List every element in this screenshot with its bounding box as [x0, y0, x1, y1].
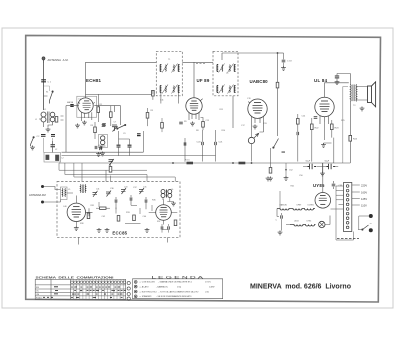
resistor R3	[110, 112, 113, 118]
tube UF89 envelope	[186, 98, 203, 114]
wire 270 column	[270, 148, 272, 168]
svg-text:C44: C44	[143, 216, 148, 218]
svg-text:ECC85: ECC85	[112, 230, 127, 235]
tube ECH81 shield box	[77, 96, 97, 117]
ground detector stub	[284, 176, 289, 180]
switch S1 (gamma)	[50, 91, 54, 104]
svg-text:C50: C50	[299, 175, 304, 177]
svg-text:T3: T3	[353, 105, 356, 107]
FM resistor 1	[87, 213, 90, 219]
switch S3 band	[117, 124, 126, 129]
extra table marks	[71, 287, 126, 298]
speck mark	[282, 152, 286, 153]
wire UF89 anode up	[182, 62, 213, 98]
speaker	[368, 82, 376, 107]
capacitor C2 (padder)	[41, 135, 46, 137]
ground heater	[266, 177, 271, 181]
svg-text:C: C	[276, 220, 278, 222]
wire UL84 anode up to transformer	[325, 83, 349, 98]
cap C osc pad	[100, 147, 102, 150]
wire mid column	[144, 108, 148, 152]
ECH81 pin wires	[82, 112, 92, 121]
svg-text:L2: L2	[55, 149, 58, 151]
svg-text:C40: C40	[63, 206, 68, 208]
wire heater interconnect	[277, 209, 330, 225]
T1 lower LC pair	[160, 85, 179, 94]
symbol column circles	[127, 281, 130, 300]
antenna FM terminals	[41, 185, 44, 204]
svg-text:L1: L1	[35, 119, 37, 121]
bus y177.5	[74, 176, 175, 178]
cap C UF89	[179, 122, 183, 124]
resistor R on speaker line	[349, 136, 352, 142]
T2 primary LC	[217, 64, 236, 73]
svg-text:UF 89: UF 89	[197, 78, 210, 83]
legend row texts	[140, 281, 199, 298]
svg-text:50µF: 50µF	[306, 161, 311, 163]
svg-text:R41: R41	[291, 186, 296, 188]
switch S4 on pot	[273, 139, 279, 149]
wire R14	[110, 163, 112, 182]
FM ratio caps	[161, 226, 163, 229]
wire R3 column	[110, 106, 112, 126]
svg-text:C37: C37	[133, 187, 138, 189]
wire R12	[311, 118, 313, 162]
svg-text:C36: C36	[110, 188, 115, 190]
commutation row labels	[36, 287, 42, 300]
svg-text:1 A/W: 1 A/W	[209, 285, 214, 288]
main bus y161.5	[59, 162, 350, 164]
left bus verticals	[59, 163, 175, 182]
cap C32 beside UY85	[332, 184, 336, 186]
svg-text:= ELETTROLITICI - TUTTI GL: = ELETTROLITICI - TUTTI GLI AVVOLGIMENTI…	[140, 290, 199, 293]
wire heater feed	[279, 191, 281, 209]
svg-text:UABC80: UABC80	[250, 79, 269, 84]
IF transformer T2 box	[213, 51, 238, 96]
svg-text:= CON NUCLEO - GAMMA OND: = CON NUCLEO - GAMMA ONDE ULTRACORTE 87,…	[140, 281, 193, 284]
wire C21	[215, 130, 217, 161]
wire switch branch	[44, 86, 50, 91]
commutation header circles	[71, 281, 126, 284]
FM resistor 2	[117, 216, 120, 222]
coupling cap C19 column	[184, 138, 186, 162]
wire 277 drop to resistor	[277, 53, 279, 82]
svg-text:1 kV%: 1 kV%	[205, 282, 211, 284]
FM tiny labels	[80, 187, 160, 226]
ground speaker	[360, 107, 365, 111]
commutation table columns	[74, 279, 124, 299]
svg-text:C20: C20	[197, 142, 202, 144]
wire T2 out to bus y53	[222, 53, 278, 128]
resistor R16	[161, 123, 164, 129]
wire tone cap	[336, 74, 338, 81]
bus y155.5	[62, 155, 216, 157]
wire R11 column	[297, 114, 299, 161]
cap blob	[137, 134, 141, 136]
svg-text:FM: FM	[36, 287, 39, 289]
ground R10	[268, 177, 273, 181]
AVC bus y152	[62, 151, 144, 153]
wire ratio caps	[162, 224, 169, 233]
FM cap row	[115, 199, 117, 202]
mains terminal strip	[344, 183, 352, 232]
mains plug dot 1	[369, 214, 373, 218]
cap C34 line filter	[281, 215, 283, 218]
svg-text:C52: C52	[289, 170, 294, 172]
wire tube right side	[94, 106, 120, 125]
FM coil 2	[161, 190, 165, 198]
dashed segment bottom	[337, 238, 359, 240]
junction dot bus 3	[251, 162, 253, 164]
trimmer cap on coil	[51, 135, 55, 137]
pilot lamp	[319, 221, 325, 227]
resistor R6	[276, 82, 279, 88]
FM resistor 3	[133, 215, 136, 221]
svg-text:C21: C21	[219, 142, 224, 144]
svg-text:C9: C9	[123, 133, 126, 135]
UABC80 pin wires	[252, 117, 264, 132]
antenna AM symbol	[42, 57, 45, 63]
svg-text:= STAMPATI - SE NON D: = STAMPATI - SE NON DIVERSAMENTE INDICAT…	[140, 295, 192, 298]
svg-text:C24: C24	[302, 116, 307, 118]
legend box	[133, 279, 223, 299]
svg-text:160V: 160V	[361, 191, 367, 195]
svg-text:S1: S1	[46, 92, 48, 94]
heater chain row2	[290, 225, 316, 227]
resistor R9	[146, 113, 149, 119]
series resistor on bus	[187, 162, 194, 165]
svg-text:C42: C42	[102, 216, 107, 218]
FM input coil L5b	[80, 185, 86, 194]
oscillator section resistor R8	[94, 127, 97, 133]
terminal circles	[346, 185, 349, 229]
T1 secondary LC	[172, 64, 180, 73]
svg-text:UL84: UL84	[294, 221, 299, 223]
UF89 pin wires	[189, 113, 199, 120]
wire mains bottom	[336, 216, 369, 240]
cap C13	[117, 145, 121, 147]
ground C34	[278, 231, 283, 235]
ground far-left	[30, 146, 35, 150]
UL84 grid resistor R11	[297, 119, 300, 125]
svg-text:R24: R24	[353, 139, 358, 141]
electrolytic cap C30	[308, 164, 317, 169]
svg-text:SCHEMA DELLE COMMUTAZIONI: SCHEMA DELLE COMMUTAZIONI	[36, 276, 114, 280]
svg-text:110V: 110V	[361, 204, 367, 208]
resistor R5 UF89 cathode	[202, 122, 205, 128]
bus y170	[59, 169, 147, 171]
FM coil 3	[166, 190, 172, 198]
svg-text:C43: C43	[124, 187, 127, 189]
tuning gang cap CV1	[112, 125, 118, 132]
FM grounds	[74, 226, 79, 230]
wire coil to ground	[44, 122, 53, 127]
svg-text:UCH81: UCH81	[308, 205, 314, 207]
wire ECH81 anode to top bus	[85, 62, 87, 97]
resistor R2 screen	[97, 107, 100, 113]
resistor R14 to FM box	[109, 167, 112, 173]
FM trimmer 1	[106, 191, 111, 197]
FM wires inside	[67, 193, 177, 226]
wire UF89 screen	[201, 118, 204, 131]
FM trimmer 2	[121, 188, 126, 194]
bus y174.5	[65, 174, 147, 176]
series resistor on bus 2	[239, 162, 246, 165]
cap C11b left	[51, 145, 56, 147]
svg-text:UY85: UY85	[313, 183, 325, 188]
svg-text:L5: L5	[68, 189, 71, 191]
wire secondary return	[343, 87, 348, 164]
wire C34	[281, 213, 283, 231]
wire T3 secondary to speaker	[357, 87, 368, 101]
svg-text:C 18: C 18	[287, 61, 292, 63]
svg-text:R25: R25	[341, 120, 346, 122]
svg-text:R33: R33	[126, 212, 131, 214]
svg-text:L6: L6	[171, 189, 174, 191]
svg-text:C19: C19	[247, 98, 252, 100]
FM trimmer 0	[93, 191, 98, 197]
resistor R4 left of T1	[152, 90, 155, 96]
mains plug dot 2	[369, 228, 373, 232]
wire T1 bottom drops	[153, 90, 178, 103]
ground cap	[281, 66, 286, 70]
svg-text:ANTENNA FM: ANTENNA FM	[29, 193, 46, 197]
ground pins area	[75, 124, 80, 128]
svg-text:R38: R38	[80, 223, 83, 225]
svg-text:±/10: ±/10	[205, 291, 210, 293]
wire cathode	[324, 120, 334, 163]
svg-text:R23: R23	[335, 128, 340, 130]
svg-text:C2: C2	[37, 136, 41, 138]
T1 primary LC	[160, 64, 168, 73]
tube UABC80 envelope	[248, 99, 267, 118]
wire grid line into tube	[66, 105, 79, 107]
svg-text:R9: R9	[184, 121, 187, 123]
svg-text:C45: C45	[143, 187, 146, 189]
capacitor grid blob left of ECH81	[70, 105, 73, 107]
junction dot bus	[172, 162, 174, 164]
wire T3 primary bottom down (B+)	[349, 102, 351, 136]
junction dot	[277, 52, 279, 54]
ground osc	[100, 152, 105, 156]
FM resistor mid	[100, 207, 107, 209]
ground UL84 cathode	[321, 143, 326, 147]
tube UY85 envelope	[315, 193, 331, 209]
ground ECH81 cathode	[82, 121, 87, 125]
wire antenna down-lead	[43, 63, 45, 110]
resistor R1 beside coil	[55, 117, 58, 123]
AM column stubs	[39, 96, 64, 120]
mains switch	[362, 225, 369, 230]
wire cap drop	[283, 53, 285, 66]
ground cap pair	[96, 152, 101, 156]
UL84 pin wires	[320, 116, 329, 124]
cap C19	[184, 142, 186, 145]
tube ECH81 envelope	[78, 98, 95, 113]
tube UL84 envelope	[315, 97, 334, 116]
resistor R12	[311, 124, 314, 130]
ground tone cap	[335, 80, 340, 84]
wire mid resistor	[96, 207, 110, 209]
svg-text:R11: R11	[220, 109, 224, 111]
svg-text:C 1: C 1	[48, 81, 52, 83]
svg-text:220V: 220V	[361, 184, 367, 188]
coil L1 AM antenna transformer	[41, 112, 55, 124]
voltage taps right	[352, 185, 360, 205]
dash-dot AGC stub	[196, 63, 205, 65]
svg-text:L2: L2	[62, 158, 64, 160]
wire UY85 top	[323, 163, 334, 193]
svg-text:T2: T2	[226, 73, 229, 75]
legend bullets	[134, 281, 137, 298]
ECC85 triode 2	[156, 205, 172, 221]
wire strip feed vertical	[331, 186, 337, 240]
FM balun coil	[61, 187, 68, 200]
cap C osc grid	[102, 124, 106, 126]
wire C11b	[52, 141, 54, 152]
wire top bus to IF1	[86, 61, 157, 63]
svg-text:ECH81: ECH81	[86, 78, 102, 83]
ground UABC80	[253, 125, 258, 129]
junction dot bus 2	[232, 162, 234, 164]
svg-text:= A LATO - GAMMA: = A LATO - GAMMA OC 1 kΩ	[140, 285, 182, 288]
wire vert left of tube	[65, 106, 67, 152]
wire R8	[94, 122, 96, 139]
svg-text:UL 84: UL 84	[314, 78, 328, 83]
wire left column	[44, 138, 53, 153]
svg-text:50µF: 50µF	[325, 161, 330, 163]
wire pot	[251, 130, 253, 162]
svg-text:C41: C41	[96, 189, 99, 191]
commutation row marks	[43, 286, 122, 298]
svg-text:~: ~	[370, 221, 373, 226]
padder trimmer	[109, 159, 114, 166]
svg-text:ANTENNA A.M.: ANTENNA A.M.	[48, 58, 69, 62]
svg-text:R5: R5	[151, 110, 154, 112]
svg-text:R8: R8	[196, 130, 199, 132]
wire electrolytic joins	[303, 163, 338, 172]
UL84 cathode resistor R13	[331, 124, 334, 130]
tiny value labels	[44, 59, 356, 218]
IF transformer T1 box	[156, 51, 182, 96]
cap pair second	[100, 146, 102, 149]
oscillator coil box L2	[44, 153, 61, 163]
svg-text:C11: C11	[160, 100, 164, 102]
heater chain row1	[277, 209, 315, 211]
svg-text:MINERVA mod. 626/6 Livorno: MINERVA mod. 626/6 Livorno	[250, 284, 351, 291]
coupling cap C21	[215, 142, 217, 145]
svg-text:C7: C7	[114, 122, 117, 124]
svg-text:UF89: UF89	[297, 205, 302, 207]
wire resistor down	[277, 88, 279, 136]
wire R16	[161, 118, 163, 132]
svg-text:MA/TA: MA/TA	[67, 101, 74, 104]
svg-text:R10: R10	[222, 130, 227, 132]
svg-text:125V: 125V	[361, 197, 367, 201]
svg-text:C17: C17	[241, 125, 246, 127]
coupling cap C20	[202, 142, 204, 145]
wire bus to FM balun	[81, 163, 83, 182]
wire R2 drop	[97, 94, 99, 122]
cap C osc	[102, 125, 106, 127]
border frame	[26, 35, 381, 302]
screen line at y94	[86, 93, 153, 95]
svg-text:UY85: UY85	[307, 221, 312, 223]
AM tiny labels	[35, 92, 64, 160]
output transformer T3	[350, 85, 357, 102]
wire R7 down to bus	[349, 141, 351, 163]
capacitor C1 (antenna series)	[41, 80, 46, 82]
FM tuner dashed box	[57, 182, 180, 238]
electrolytic cap C31	[327, 164, 336, 169]
cap C23	[314, 117, 318, 119]
volume potentiometer	[248, 133, 258, 143]
capacitor C decoupling at 283	[282, 60, 286, 62]
svg-text:R 15: R 15	[185, 160, 190, 162]
svg-text:R35: R35	[152, 200, 157, 202]
wire C20	[202, 130, 204, 161]
svg-text:R37: R37	[157, 221, 160, 223]
svg-text:R22: R22	[315, 128, 320, 130]
oscillator coil L3	[99, 135, 108, 148]
capacitor tone at UL84 anode	[335, 76, 339, 78]
ground electrolytics	[320, 172, 325, 176]
svg-text:C15: C15	[206, 120, 211, 122]
caps pair at 95-104	[95, 146, 97, 149]
commutation table frame	[35, 279, 126, 299]
junction dot detector	[285, 169, 287, 171]
svg-text:FONO: FONO	[36, 298, 42, 300]
wire FM antenna to box	[44, 187, 61, 203]
svg-text:R31: R31	[91, 205, 96, 207]
FM resistor 4	[174, 220, 177, 226]
wire B+ corner to transformer	[337, 74, 350, 85]
cap C22	[297, 132, 299, 135]
svg-text:T1: T1	[168, 59, 171, 61]
wire detector stub	[285, 163, 287, 176]
switch S2 far left	[31, 137, 35, 146]
ground under L1	[46, 128, 51, 132]
cap C14	[128, 145, 132, 147]
svg-text:L1: L1	[44, 109, 47, 111]
wire cap drops	[119, 131, 130, 156]
resistor R10	[269, 168, 272, 174]
T2 lower LC pair	[217, 85, 236, 94]
FM trimmer 3	[139, 188, 144, 194]
svg-text:R13: R13	[263, 123, 268, 125]
svg-text:UABC80: UABC80	[280, 204, 287, 207]
FM misc stubs	[99, 202, 152, 214]
legend right column tiny text	[205, 282, 214, 294]
wires into strip left	[336, 186, 344, 209]
wire FM box exits	[79, 170, 168, 244]
resistor R7 B+ dropper	[349, 136, 352, 142]
ECC85 triode 1	[67, 203, 85, 221]
ground UF89	[190, 122, 195, 126]
svg-text:OM: OM	[36, 294, 40, 296]
